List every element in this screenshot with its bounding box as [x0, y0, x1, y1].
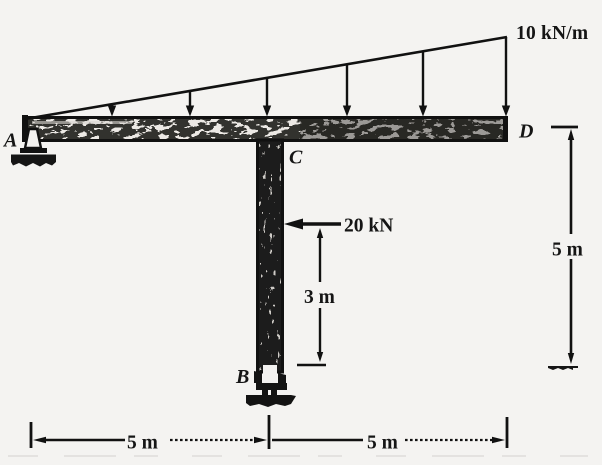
load arrow 5 — [419, 51, 427, 117]
svg-text:3 m: 3 m — [304, 287, 335, 308]
svg-text:B: B — [235, 366, 249, 388]
load arrow 2 — [186, 91, 194, 117]
support B base slab — [246, 395, 296, 407]
beam AD outline — [22, 115, 508, 142]
force 20 kN arrow — [284, 219, 341, 230]
support A hatched ground — [11, 155, 56, 167]
dimension right 5 m lower line — [568, 259, 574, 364]
dimension right 5 m bottom tick — [548, 366, 578, 370]
dimension 3 m bottom tick — [297, 364, 326, 367]
bottom dimension right arrow — [492, 437, 505, 443]
dimension right 5 m upper line — [568, 129, 574, 234]
svg-text:5 m: 5 m — [367, 433, 398, 454]
bottom dimension left dashed line — [170, 439, 258, 441]
svg-text:A: A — [2, 130, 17, 152]
bottom dimension right dashed line — [405, 439, 496, 441]
beam AD body — [22, 116, 508, 142]
dimension 3 m line lower — [317, 308, 323, 362]
svg-text:C: C — [289, 147, 303, 169]
svg-text:10 kN/m: 10 kN/m — [516, 23, 588, 44]
svg-text:D: D — [518, 121, 533, 143]
support B pin marks — [262, 390, 268, 396]
support B pin sides — [254, 371, 262, 383]
svg-text:5 m: 5 m — [552, 240, 583, 261]
bottom dimension left tick — [30, 422, 33, 448]
support A pedestal — [25, 129, 41, 148]
distributed load top line — [25, 37, 507, 119]
dimension 3 m line upper — [317, 228, 323, 282]
dimension right 5 m top tick — [551, 126, 578, 129]
load arrow 3 — [263, 78, 271, 117]
support B plate — [256, 383, 287, 390]
bottom dimension left arrow — [33, 437, 46, 443]
beam light streak — [32, 121, 132, 124]
load arrow 6 — [502, 37, 510, 117]
column CB outline — [258, 140, 283, 372]
column CB body — [256, 140, 284, 372]
beam right darkening — [300, 119, 503, 140]
bottom dimension left solid line — [44, 439, 125, 441]
support B pin gap — [263, 365, 277, 383]
svg-text:20 kN: 20 kN — [344, 216, 393, 237]
load arrow 4 — [343, 64, 351, 117]
bottom dimension middle tick — [268, 415, 271, 449]
bottom dimension mid-left arrow — [254, 437, 267, 443]
support A base plate — [20, 148, 47, 153]
bottom dimension right tick — [506, 417, 509, 448]
faint scan artifact line — [8, 455, 588, 457]
svg-text:5 m: 5 m — [127, 433, 158, 454]
bottom dimension right solid line — [272, 439, 363, 441]
load arrow 1 — [108, 104, 116, 117]
